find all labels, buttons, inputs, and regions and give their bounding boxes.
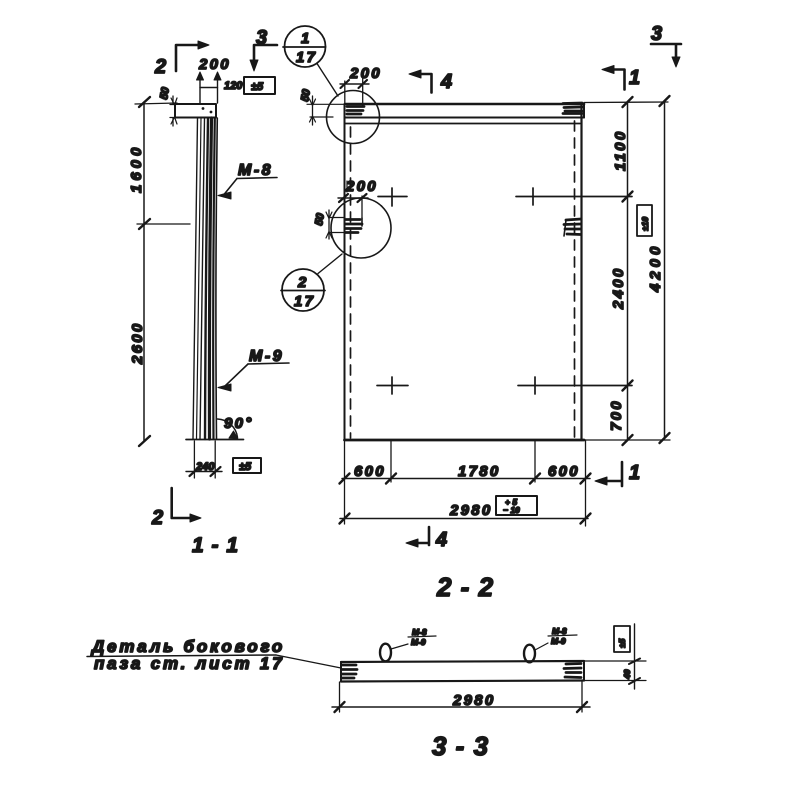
dim 50 groove height [326,210,345,239]
dim 2980 of 3-3 [332,681,590,712]
svg-text:50: 50 [158,86,172,101]
svg-text:4: 4 [440,71,452,93]
svg-text:40: 40 [622,669,632,680]
groove right end of bar [564,664,581,678]
svg-text:3: 3 [256,27,267,49]
svg-text:2 - 2: 2 - 2 [436,572,494,602]
svg-text:М-9: М-9 [551,636,566,646]
section mark 3 top-left [250,45,277,71]
label M-8/M-9 left [391,627,436,649]
dim line vertical 1100/2400/700 [623,97,633,445]
detail circle 2 (left edge groove) [331,198,391,258]
svg-text:50: 50 [299,88,313,103]
dimension line vertical 1600/2600 [135,97,190,446]
tolerance box ±5 (3-3, rotated) [614,626,630,652]
cross mark bottom-right with extension to dim [518,377,632,394]
loop M-8/M-9 left [380,644,391,662]
groove right edge [564,219,581,236]
bar thickness dim right [584,624,646,689]
detail circle 1 (top-left corner) [327,91,380,144]
svg-text:1: 1 [301,30,312,47]
dim line vertical 4200 [660,96,670,443]
svg-text:±5: ±5 [617,638,627,648]
section mark 1 bottom-right [595,462,622,486]
svg-text:2980: 2980 [452,692,496,709]
groove left edge (detail 2) [346,218,363,233]
svg-text:3: 3 [651,23,662,45]
svg-text:М-9: М-9 [411,637,426,647]
tolerance box ±10 (rotated) [637,205,652,236]
dim 200 top-left corner of 2-2 [340,78,369,106]
label M-8 with leader [218,162,277,199]
section mark 1 top-right [602,66,625,90]
svg-text:17: 17 [294,293,315,310]
groove left end of bar [342,665,357,678]
svg-text:2: 2 [151,507,163,529]
svg-text:±5: ±5 [251,81,264,93]
svg-text:2600: 2600 [129,321,146,365]
svg-text:±5: ±5 [239,461,252,473]
web lines of 1-1 (tapered panel section) [193,118,217,439]
svg-text:600: 600 [548,463,580,480]
panel left edge [344,104,346,440]
svg-text:700: 700 [608,399,625,431]
svg-text:1780: 1780 [458,463,501,480]
dim 240 bottom of 1-1 [186,441,222,478]
section mark 2 top [176,41,209,71]
svg-text:1: 1 [629,462,640,484]
tolerance box ±5 bottom-left [233,458,261,473]
svg-text:2980: 2980 [449,502,493,519]
section mark 3 top-right [651,44,681,67]
cross mark top-left [378,188,407,206]
dim 50 plate thickness 2-2 [307,96,344,125]
svg-text:200: 200 [349,65,382,82]
svg-text:200: 200 [345,178,378,195]
svg-text:− 10: − 10 [503,505,520,515]
panel right edge [580,104,582,440]
bottom extension lines [345,440,586,526]
angle 90 arc [218,419,239,439]
cross mark top-right with extension to dim [516,188,632,205]
dim 200 left edge groove [338,181,368,218]
tolerance box ±5 top [244,77,275,94]
dim 200 top of 1-1 [197,72,222,103]
dashed line left [350,127,352,438]
svg-text:50: 50 [313,212,327,227]
panel top plate lines [345,104,584,124]
svg-text:4200: 4200 [647,243,664,293]
svg-text:1: 1 [629,67,640,89]
dim line 2980 [340,514,591,524]
section mark 4 bottom [406,527,429,547]
loop M-8/M-9 right [524,645,535,663]
dim line 600/1780/600 [340,474,591,484]
svg-text:1 - 1: 1 - 1 [192,534,239,557]
balloon 2/17 [281,254,342,311]
svg-text:17: 17 [296,49,317,66]
bar outline [341,661,584,682]
svg-text:200: 200 [198,56,231,73]
dashed line right [574,121,576,438]
svg-text:600: 600 [354,463,386,480]
svg-text:1600: 1600 [128,144,145,193]
baseline under 1-1 [186,439,244,441]
svg-text:120: 120 [224,80,243,92]
svg-text:М-8: М-8 [238,162,273,179]
section mark 4 top [409,70,432,93]
tolerance box +5/-10 [496,496,537,515]
panel bottom edge [345,439,585,442]
svg-text:90°: 90° [224,415,254,432]
svg-text:3 - 3: 3 - 3 [432,731,489,761]
label M-8/M-9 right [535,626,577,650]
cross mark bottom-left [377,377,408,394]
svg-text:М-8: М-8 [552,626,567,636]
svg-text:1100: 1100 [612,130,629,171]
svg-text:4: 4 [435,529,447,551]
svg-text:±10: ±10 [640,217,650,231]
svg-text:2: 2 [297,274,309,291]
groove top-left corner [347,107,364,115]
callout text with leader [87,637,341,673]
dim 50 plate thickness 1-1 [170,96,177,126]
svg-text:2400: 2400 [610,266,627,310]
svg-text:М-8: М-8 [412,627,427,637]
right extension lines [584,102,670,440]
balloon 1/17 [283,26,338,96]
section mark 2 bottom [172,488,201,522]
top plate of 1-1 [175,104,216,118]
label M-9 with leader [218,348,289,391]
svg-text:2: 2 [154,56,166,78]
svg-text:240: 240 [195,461,215,473]
groove top-right corner [563,103,582,114]
